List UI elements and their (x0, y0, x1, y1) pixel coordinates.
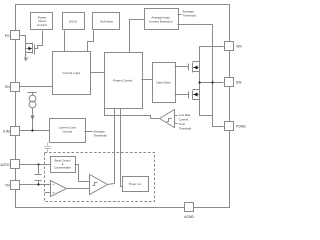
wire AICD to Average Threshold label (178, 14, 182, 16)
pin PG (5, 31, 20, 40)
comparator low side current limit (160, 110, 175, 128)
wire Power Control to Timer (121, 109, 123, 187)
box Gate Drive (153, 63, 176, 103)
label Low Side Current Limit Threshold (179, 113, 192, 130)
svg-text:Limit: Limit (179, 122, 185, 126)
wire AICD right edge to vertical sense line (178, 24, 213, 26)
wire AICD left edge down to Power Control top (130, 20, 145, 53)
svg-text:UVLO: UVLO (69, 20, 78, 24)
box Timer tON (123, 177, 149, 192)
junction dot SW/rail (198, 81, 200, 83)
svg-text:Control Logic: Control Logic (63, 71, 81, 75)
box Control Logic (53, 52, 91, 95)
svg-text:Current Detection: Current Detection (149, 19, 173, 23)
svg-text:Threshold: Threshold (94, 134, 108, 138)
wire PWM comparator output to Power Control bottom (108, 109, 115, 185)
pin EN (5, 83, 20, 92)
box Soft Start (93, 13, 120, 30)
comparator input stubs (175, 115, 178, 117)
svg-text:ILIM: ILIM (3, 130, 10, 134)
pin SW (225, 78, 243, 87)
comparator PWM (90, 175, 108, 195)
pin VIN (225, 42, 243, 51)
svg-text:AUTO: AUTO (0, 163, 10, 167)
junction dot ILIM/current source (31, 129, 33, 131)
capacitor C2 (AUTO to FB) (35, 165, 42, 185)
svg-text:Soft Start: Soft Start (100, 20, 113, 24)
wire ILIM to Current Limit Control (20, 130, 50, 132)
box Current Limit Control (50, 119, 86, 143)
transistor Q2 high side FET (175, 62, 200, 73)
svg-text:EN: EN (5, 85, 10, 89)
wire CLC to Average Threshold label (85, 131, 93, 133)
pin AUTO (0, 160, 19, 169)
box UVLO (63, 13, 85, 30)
svg-text:PGND: PGND (236, 125, 246, 129)
transistor Q3 low side FET (175, 90, 200, 100)
svg-text:Control: Control (62, 130, 72, 134)
svg-text:Low Side: Low Side (179, 113, 191, 117)
wire VREF stub to error amp (45, 192, 51, 194)
svg-text:Control: Control (37, 23, 47, 27)
box Power Control (105, 53, 143, 109)
box Average Input Current Detection (145, 9, 179, 30)
svg-text:Compensation: Compensation (54, 166, 72, 170)
svg-text:FB: FB (5, 184, 10, 188)
wire Power Control to Gate Drive (142, 79, 153, 81)
wire VIN rail (200, 47, 224, 116)
svg-text:Current: Current (179, 117, 189, 121)
wire UVLO stub to Control Logic top (64, 31, 66, 52)
box Band Control & Compensation (51, 157, 76, 173)
box Power Good Control (31, 13, 53, 30)
wire EN to Control Logic (20, 86, 53, 88)
junction dot FB/C2 (37, 183, 39, 185)
pin AGND (184, 203, 194, 220)
junction dot SW/sense line (211, 81, 213, 83)
svg-text:VIN: VIN (236, 45, 242, 49)
label Average Threshold (top right) (183, 10, 197, 18)
svg-text:Threshold: Threshold (183, 14, 197, 18)
svg-text:Gate Drive: Gate Drive (156, 81, 171, 85)
op-amp error amplifier (51, 181, 67, 197)
capacitor C1 (compensation, faint) (45, 143, 51, 153)
wire PG pin to Q1 drain (20, 36, 26, 44)
dashed control block (45, 153, 155, 202)
junction dot AUTO/C2 (37, 163, 39, 165)
wire comparator output to Power Control bottom (105, 109, 160, 119)
wire Control Logic to Power Control (91, 72, 105, 74)
wire error amp out to PWM comparator (67, 188, 90, 190)
wire PGC box stub to Q1 gate (35, 31, 43, 49)
wire vertical sense line (to PGND pin) (213, 25, 224, 127)
ground arrow below Q1 (24, 58, 29, 62)
svg-text:Power Control: Power Control (113, 78, 132, 82)
pin ILIM (3, 127, 19, 136)
svg-text:&: & (62, 162, 64, 166)
wire FB to error amp (20, 184, 51, 186)
pin PGND (225, 122, 247, 131)
current source on ILIM line (28, 93, 37, 131)
outer IC border (16, 5, 230, 208)
wire SW node (200, 82, 224, 84)
transistor Q1 (PG open drain FET) (26, 43, 35, 58)
wire AUTO to Gm box (20, 164, 51, 166)
wire Soft Start stub to Control Logic top (88, 31, 94, 52)
svg-text:SW: SW (236, 81, 242, 85)
pin FB (5, 181, 19, 190)
wire Gm box output to PWM comparator (75, 165, 90, 182)
label Average Threshold (middle) (94, 130, 108, 138)
svg-text:AGND: AGND (184, 215, 194, 219)
svg-text:Threshold: Threshold (179, 126, 192, 130)
svg-text:Band Control: Band Control (55, 159, 71, 163)
svg-text:PG: PG (5, 34, 10, 38)
